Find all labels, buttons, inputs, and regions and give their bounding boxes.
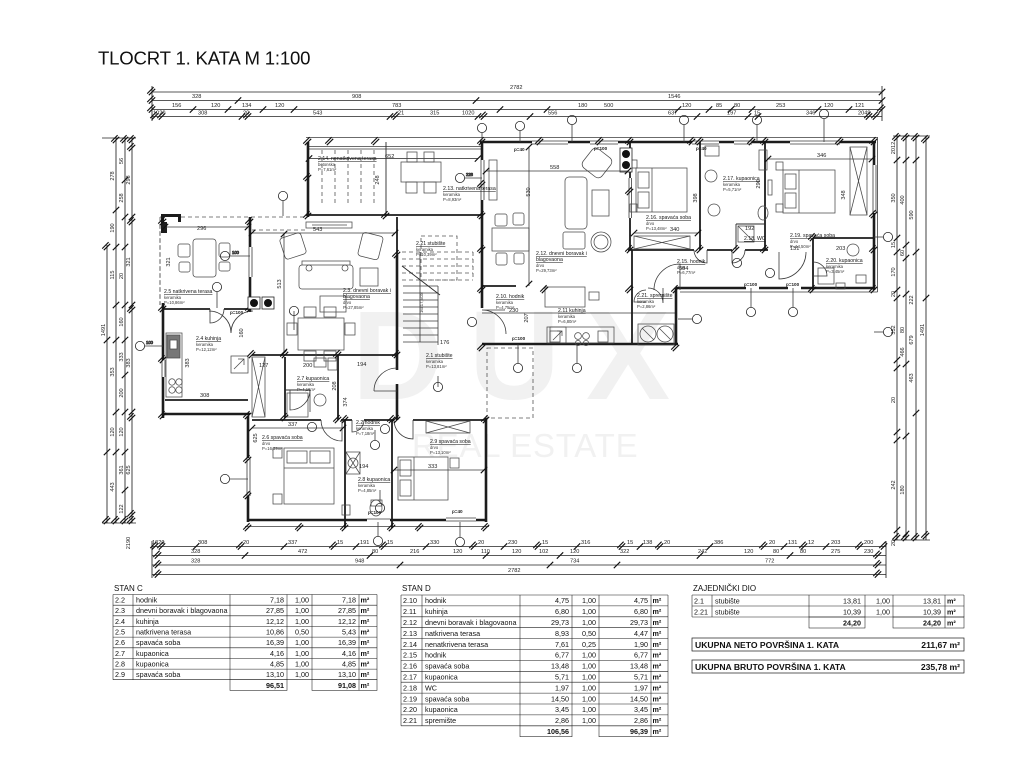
svg-text:100: 100 <box>232 250 240 255</box>
svg-text:120: 120 <box>453 549 462 555</box>
svg-text:1,00: 1,00 <box>876 596 890 605</box>
svg-text:m²: m² <box>653 662 662 671</box>
svg-text:216: 216 <box>410 549 419 555</box>
svg-text:spavaća soba: spavaća soba <box>425 694 469 703</box>
svg-text:1,00: 1,00 <box>295 596 309 605</box>
door hall C <box>374 368 397 391</box>
window top wall 3 <box>590 139 618 145</box>
svg-text:558: 558 <box>550 165 559 171</box>
svg-text:180: 180 <box>578 103 587 109</box>
svg-text:1,00: 1,00 <box>582 651 596 660</box>
svg-text:1,00: 1,00 <box>582 705 596 714</box>
closet strip top wall y355 <box>252 354 397 356</box>
svg-text:2.10: 2.10 <box>403 596 417 605</box>
svg-text:kupaonica: kupaonica <box>425 705 458 714</box>
svg-text:m²: m² <box>653 716 662 725</box>
svg-text:1,90: 1,90 <box>634 640 648 649</box>
stair cut diagonal <box>402 266 440 295</box>
svg-text:m²: m² <box>653 640 662 649</box>
svg-text:948: 948 <box>355 559 364 565</box>
svg-text:96,39: 96,39 <box>630 727 648 736</box>
window top wall 5 <box>734 139 752 145</box>
wall below STAN D bedrooms y250 <box>628 249 780 251</box>
svg-text:543: 543 <box>313 111 322 117</box>
window on x250 wall <box>247 247 253 277</box>
svg-text:m²: m² <box>361 638 370 647</box>
stair left wall upper <box>396 217 398 255</box>
svg-text:1020: 1020 <box>152 540 164 546</box>
window top wall 2 <box>532 139 568 145</box>
svg-text:2.13: 2.13 <box>403 629 417 638</box>
svg-text:4,16: 4,16 <box>270 649 284 658</box>
bottom dim ticks <box>150 542 887 578</box>
svg-text:463: 463 <box>909 373 915 382</box>
svg-text:1,00: 1,00 <box>582 673 596 682</box>
right wall lower block x486 <box>485 418 488 522</box>
UKUPNA NETO row <box>692 638 964 651</box>
svg-text:0,50: 0,50 <box>582 629 596 638</box>
svg-text:122: 122 <box>119 504 125 513</box>
svg-text:242: 242 <box>891 480 897 489</box>
svg-text:1491: 1491 <box>101 324 107 336</box>
svg-text:176: 176 <box>440 340 449 346</box>
svg-text:1,00: 1,00 <box>582 683 596 692</box>
armchair living C <box>279 232 307 260</box>
left chain ticks <box>102 135 135 524</box>
svg-text:472: 472 <box>298 549 307 555</box>
label 2.8 <box>358 477 390 493</box>
svg-text:P=4,16m²: P=4,16m² <box>297 387 316 392</box>
label 2.6 <box>262 435 303 451</box>
door bath 2.8 <box>352 420 364 432</box>
table STAN C grid <box>113 595 377 691</box>
svg-text:16x17,5/28: 16x17,5/28 <box>419 292 424 313</box>
svg-text:m²: m² <box>361 681 370 690</box>
svg-text:194: 194 <box>357 362 366 368</box>
svg-text:p=40: p=40 <box>514 147 525 152</box>
svg-text:386: 386 <box>714 540 723 546</box>
svg-text:spavaća soba: spavaća soba <box>136 638 180 647</box>
svg-text:228: 228 <box>466 172 474 177</box>
bed 2.6 <box>273 448 334 504</box>
svg-text:466: 466 <box>900 347 906 356</box>
svg-text:1,00: 1,00 <box>295 649 309 658</box>
svg-text:P=7,18m²: P=7,18m² <box>356 431 375 436</box>
svg-text:13,81: 13,81 <box>843 596 861 605</box>
label 2.1 stubiste <box>416 241 446 257</box>
right dimension chains <box>893 136 930 540</box>
svg-text:5,43: 5,43 <box>342 628 356 637</box>
door p=100 bottom wall <box>367 516 390 523</box>
svg-text:ZAJEDNIČKI DIO: ZAJEDNIČKI DIO <box>693 584 756 593</box>
kitchen C counter <box>166 333 182 397</box>
door gap y288 c <box>788 285 801 291</box>
terrace block left wall <box>307 142 310 217</box>
door gap corridor 3 <box>768 247 781 253</box>
svg-text:513: 513 <box>277 279 283 288</box>
svg-text:m²: m² <box>653 727 662 736</box>
svg-text:20: 20 <box>769 540 775 546</box>
door bedroom 2.19 <box>779 252 806 279</box>
table ZAJEDNICKI DIO rows <box>694 596 956 627</box>
svg-text:spavaća soba: spavaća soba <box>136 670 180 679</box>
svg-text:772: 772 <box>765 559 774 565</box>
svg-text:7,18: 7,18 <box>270 596 284 605</box>
door kitchen C <box>210 309 224 323</box>
svg-text:dnevni boravak i blagovaona: dnevni boravak i blagovaona <box>425 618 517 627</box>
svg-text:328: 328 <box>191 549 200 555</box>
svg-text:REAL ESTATE: REAL ESTATE <box>412 427 638 464</box>
door bedroom 2.9 <box>394 420 413 439</box>
right chain numbers (rotated) <box>891 142 926 546</box>
svg-text:m²: m² <box>653 618 662 627</box>
svg-text:348: 348 <box>841 190 847 199</box>
svg-text:m²: m² <box>361 617 370 626</box>
svg-text:60: 60 <box>900 250 906 256</box>
svg-text:m²: m² <box>361 649 370 658</box>
svg-text:443: 443 <box>110 482 116 491</box>
svg-text:2.9: 2.9 <box>115 670 125 679</box>
svg-text:383: 383 <box>126 358 132 367</box>
terrace railing top <box>307 146 482 148</box>
svg-text:194: 194 <box>359 464 368 470</box>
svg-text:783: 783 <box>392 103 401 109</box>
svg-text:m²: m² <box>361 670 370 679</box>
door corridor D arc big <box>654 264 680 290</box>
svg-text:p=100: p=100 <box>594 146 608 151</box>
svg-text:20: 20 <box>891 291 897 297</box>
svg-text:584: 584 <box>679 266 688 272</box>
svg-text:203: 203 <box>836 246 845 252</box>
svg-text:211,67 m²: 211,67 m² <box>921 640 960 650</box>
STAN D left wall x482 <box>481 142 484 308</box>
svg-text:24,20: 24,20 <box>843 618 861 627</box>
roof overhang line bottom D <box>680 291 878 293</box>
svg-text:333: 333 <box>428 464 437 470</box>
door bath 2.7 <box>290 390 310 412</box>
svg-text:337: 337 <box>288 422 297 428</box>
closet X room 2.9 <box>426 421 470 433</box>
label 2.16 <box>646 215 691 231</box>
svg-text:85: 85 <box>716 103 722 109</box>
svg-text:321: 321 <box>166 257 172 266</box>
small fixture corridor <box>589 292 599 300</box>
bottom dim numbers <box>152 540 873 574</box>
svg-text:322: 322 <box>620 549 629 555</box>
svg-text:400: 400 <box>900 195 906 204</box>
door spremiste <box>648 288 663 303</box>
bedroom divider x345 <box>344 420 346 528</box>
svg-text:1,00: 1,00 <box>876 607 890 616</box>
label 2.7 <box>297 376 329 392</box>
svg-text:29,73: 29,73 <box>630 618 648 627</box>
svg-text:3,45: 3,45 <box>634 705 648 714</box>
glass break x630 <box>628 178 633 218</box>
svg-text:2.12: 2.12 <box>403 618 417 627</box>
svg-text:kupaonica: kupaonica <box>136 649 169 658</box>
armchair living D <box>580 146 614 180</box>
upper stair dashed box <box>421 236 457 280</box>
svg-text:56: 56 <box>119 158 125 164</box>
door gap y288 b <box>746 285 759 291</box>
svg-text:131: 131 <box>788 540 797 546</box>
svg-text:m²: m² <box>947 607 956 616</box>
svg-text:P=13,10m²: P=13,10m² <box>430 450 451 455</box>
washer dryer 2.21 <box>638 324 674 345</box>
svg-text:170: 170 <box>891 267 897 276</box>
svg-text:190: 190 <box>110 223 116 232</box>
table STAN D rows <box>403 596 662 736</box>
svg-text:333: 333 <box>119 352 125 361</box>
svg-text:160: 160 <box>239 328 245 337</box>
svg-text:natkrivena terasa: natkrivena terasa <box>425 629 480 638</box>
svg-text:2.21: 2.21 <box>403 716 417 725</box>
svg-text:STAN C: STAN C <box>114 584 143 593</box>
svg-text:m²: m² <box>947 618 956 627</box>
door gap kitchen <box>210 306 224 312</box>
top dim numbers row3 <box>172 103 864 109</box>
svg-text:556: 556 <box>548 111 557 117</box>
svg-text:6,80: 6,80 <box>555 607 569 616</box>
label 2.4 <box>196 336 221 352</box>
bed 2.16 <box>630 160 687 212</box>
svg-text:7,61: 7,61 <box>555 640 569 649</box>
svg-text:590: 590 <box>909 210 915 219</box>
roof overhang top line <box>306 137 878 139</box>
svg-text:P=8,93m²: P=8,93m² <box>443 197 462 202</box>
terrace 652 dim line <box>309 158 478 160</box>
dining table living C <box>287 307 355 361</box>
label 2.12 <box>536 251 587 273</box>
svg-text:nenatkrivena terasa: nenatkrivena terasa <box>425 640 488 649</box>
svg-text:2.14: 2.14 <box>403 640 417 649</box>
svg-text:308: 308 <box>200 393 209 399</box>
svg-text:4,16: 4,16 <box>342 649 356 658</box>
svg-text:91,08: 91,08 <box>338 681 356 690</box>
door stan D entry <box>482 310 506 334</box>
svg-text:p=100: p=100 <box>744 282 758 287</box>
svg-text:P=10,39m²: P=10,39m² <box>416 252 437 257</box>
svg-text:1,00: 1,00 <box>295 638 309 647</box>
label 2.13 <box>443 186 496 202</box>
utility strip bottom wall <box>482 343 678 346</box>
svg-text:120: 120 <box>119 427 125 436</box>
svg-text:P=4,85m²: P=4,85m² <box>358 488 377 493</box>
svg-text:1546: 1546 <box>668 94 680 100</box>
svg-text:207: 207 <box>524 313 530 322</box>
svg-text:192: 192 <box>745 226 754 232</box>
svg-text:127: 127 <box>259 363 268 369</box>
svg-text:258: 258 <box>119 193 125 202</box>
living top boundary y230 dashed <box>252 229 308 231</box>
svg-text:230: 230 <box>508 540 517 546</box>
svg-text:p=100: p=100 <box>230 310 244 315</box>
svg-text:321: 321 <box>126 257 132 266</box>
svg-text:6,77: 6,77 <box>634 651 648 660</box>
window on x482 wall <box>479 160 485 200</box>
stairs solid treads lower flight <box>403 252 438 345</box>
svg-text:1,00: 1,00 <box>582 618 596 627</box>
STAN C dashed terrace 2.5 outline <box>160 217 308 307</box>
top dim ticks row2 <box>147 96 155 104</box>
kitchen D appliances <box>545 287 614 346</box>
svg-text:2.5: 2.5 <box>115 628 125 637</box>
svg-text:131: 131 <box>790 246 799 252</box>
STAN C left wall <box>159 225 161 305</box>
svg-text:6,80: 6,80 <box>634 607 648 616</box>
svg-text:200: 200 <box>119 388 125 397</box>
svg-text:stubište: stubište <box>715 607 740 616</box>
svg-text:P=10,86m²: P=10,86m² <box>164 300 185 305</box>
door living C to terrace (double) <box>209 311 253 333</box>
svg-text:4,85: 4,85 <box>342 659 356 668</box>
kitchen D island arrow <box>550 327 566 343</box>
svg-text:m²: m² <box>361 606 370 615</box>
bath 2.8 fixtures <box>342 452 382 516</box>
svg-text:stubište: stubište <box>715 596 740 605</box>
svg-text:398: 398 <box>693 193 699 202</box>
svg-text:4,47: 4,47 <box>634 629 648 638</box>
window left wall kitchen <box>160 360 166 377</box>
svg-text:120: 120 <box>110 427 116 436</box>
svg-text:20: 20 <box>891 540 897 546</box>
svg-text:1,97: 1,97 <box>634 683 648 692</box>
svg-text:spremište: spremište <box>425 716 456 725</box>
hall left wall x397 <box>396 255 399 420</box>
bed 2.19 <box>776 162 835 213</box>
kitchen top wall y307 <box>163 308 250 310</box>
svg-text:80: 80 <box>734 103 740 109</box>
svg-text:15: 15 <box>891 242 897 248</box>
svg-text:P=13,81m²: P=13,81m² <box>426 364 447 369</box>
svg-text:2012: 2012 <box>891 142 897 154</box>
svg-text:1491: 1491 <box>920 324 926 336</box>
svg-text:m²: m² <box>361 659 370 668</box>
TV bench living D <box>489 160 497 200</box>
door bath 2.20 <box>813 262 827 276</box>
svg-text:2.11: 2.11 <box>403 607 416 616</box>
spremiste left wall x632 <box>631 250 633 344</box>
svg-text:156: 156 <box>172 103 181 109</box>
svg-text:8,93: 8,93 <box>555 629 569 638</box>
svg-text:2.7: 2.7 <box>115 649 125 658</box>
svg-text:80: 80 <box>773 549 779 555</box>
svg-text:734: 734 <box>570 559 579 565</box>
wall stub hodnik D <box>482 285 516 287</box>
svg-text:10,86: 10,86 <box>266 628 284 637</box>
label 2.19 <box>790 233 835 249</box>
svg-text:P=7,61m²: P=7,61m² <box>318 167 337 172</box>
svg-text:315: 315 <box>430 111 439 117</box>
svg-text:625: 625 <box>253 433 259 442</box>
svg-text:m²: m² <box>653 607 662 616</box>
kitchen open boundary line <box>482 312 676 314</box>
strip bottom wall y420 <box>252 419 486 421</box>
door gap bath 2.8 <box>352 417 364 423</box>
svg-text:m²: m² <box>653 683 662 692</box>
door bedroom 2.6 <box>321 420 342 441</box>
svg-text:13,81: 13,81 <box>923 596 941 605</box>
svg-text:10,39: 10,39 <box>843 607 861 616</box>
sideboard line living C <box>312 224 347 226</box>
door bath 2.17 <box>732 250 745 263</box>
svg-text:STAN D: STAN D <box>402 584 431 593</box>
dining table living D <box>492 213 529 265</box>
svg-text:2782: 2782 <box>510 85 522 91</box>
terrace 2.5 right wall x250 <box>249 217 252 312</box>
svg-text:15: 15 <box>387 540 393 546</box>
kitchen bottom wall outer <box>163 413 250 416</box>
label 2.3 <box>343 288 391 310</box>
dim line row3 <box>152 109 882 111</box>
svg-text:16,39: 16,39 <box>338 638 356 647</box>
svg-text:1020: 1020 <box>153 111 165 117</box>
svg-text:230: 230 <box>509 308 518 314</box>
svg-text:2.18. WC: 2.18. WC <box>744 236 766 242</box>
svg-text:80: 80 <box>372 549 378 555</box>
closet X 2.16 <box>634 236 690 249</box>
svg-text:kupaonica: kupaonica <box>425 673 458 682</box>
svg-text:1,00: 1,00 <box>295 659 309 668</box>
svg-text:2.21: 2.21 <box>694 607 708 616</box>
svg-text:242: 242 <box>698 549 707 555</box>
svg-text:121: 121 <box>855 103 864 109</box>
svg-text:1,00: 1,00 <box>582 607 596 616</box>
bedroom wall x630 <box>629 142 631 250</box>
svg-text:2.3: 2.3 <box>115 606 125 615</box>
svg-text:hodnik: hodnik <box>136 596 158 605</box>
svg-text:383: 383 <box>185 358 191 367</box>
svg-text:100: 100 <box>146 340 154 345</box>
svg-text:191: 191 <box>360 540 369 546</box>
svg-text:13,10: 13,10 <box>338 670 356 679</box>
svg-text:120: 120 <box>275 103 284 109</box>
bottom dimension chains <box>152 541 886 578</box>
svg-text:2.18: 2.18 <box>403 683 417 692</box>
switch boxes living D <box>620 148 632 172</box>
svg-text:m²: m² <box>653 705 662 714</box>
svg-text:p=100: p=100 <box>512 336 526 341</box>
svg-text:679: 679 <box>909 335 915 344</box>
svg-text:UKUPNA NETO POVRŠINA 1. KATA: UKUPNA NETO POVRŠINA 1. KATA <box>695 639 839 650</box>
wardrobe arrow box hall C <box>231 356 248 373</box>
svg-text:12,12: 12,12 <box>338 617 356 626</box>
bath 2.20 top wall <box>813 237 874 239</box>
svg-text:120: 120 <box>512 549 521 555</box>
svg-text:4,75: 4,75 <box>634 596 648 605</box>
coffee table living C <box>320 296 346 312</box>
svg-text:200: 200 <box>864 540 873 546</box>
svg-text:natkrivena terasa: natkrivena terasa <box>136 628 191 637</box>
svg-text:kuhinja: kuhinja <box>136 617 159 626</box>
svg-text:14,50: 14,50 <box>630 694 648 703</box>
svg-text:16,39: 16,39 <box>266 638 284 647</box>
svg-text:P=16,39m²: P=16,39m² <box>262 446 283 451</box>
svg-text:10,39: 10,39 <box>923 607 941 616</box>
outer top wall <box>480 141 876 144</box>
bath 2.7 box <box>285 355 338 420</box>
svg-text:346: 346 <box>817 153 826 159</box>
svg-text:278: 278 <box>110 171 116 180</box>
svg-text:13,10: 13,10 <box>266 670 284 679</box>
svg-text:652: 652 <box>385 154 394 160</box>
svg-text:160: 160 <box>119 317 125 326</box>
svg-text:m²: m² <box>361 596 370 605</box>
svg-text:248: 248 <box>375 175 381 184</box>
svg-text:110: 110 <box>481 549 490 555</box>
corner pillar leg <box>161 214 167 233</box>
table terrace 2.5 <box>178 239 230 277</box>
